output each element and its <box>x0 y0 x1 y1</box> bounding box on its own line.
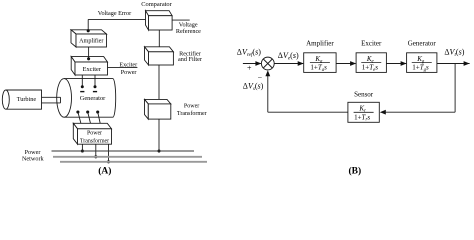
wire comparator to rectifier <box>158 30 160 49</box>
turbine cylinder <box>2 90 41 109</box>
exciter box <box>71 57 107 75</box>
power network bus line 3 <box>60 161 207 163</box>
svg-text:Transformer: Transformer <box>80 138 109 145</box>
wire tap2 to transformer <box>88 112 91 123</box>
generator cylinder <box>57 79 116 118</box>
wire junction to amplifier <box>274 63 303 65</box>
svg-text:Amplifier: Amplifier <box>79 38 103 45</box>
wire exciter to slip-ring 1 <box>81 75 83 87</box>
svg-text:Voltage Error: Voltage Error <box>98 10 131 17</box>
svg-text:Exciter: Exciter <box>83 66 102 73</box>
input wire <box>243 63 261 65</box>
power network bus line 2 <box>53 156 202 158</box>
svg-text:1+Trs: 1+Trs <box>354 113 370 122</box>
svg-text:(B): (B) <box>348 165 361 176</box>
power transformer box (right) <box>145 99 171 119</box>
svg-text:Amplifier: Amplifier <box>306 39 334 47</box>
amplifier block <box>304 53 336 73</box>
turbine shaft <box>42 96 61 98</box>
wire exciter to slip-ring 2 <box>94 75 96 87</box>
svg-text:Transformer: Transformer <box>177 110 207 117</box>
svg-text:(A): (A) <box>98 165 111 176</box>
wire transformer leg 2 <box>95 144 97 157</box>
sensor block <box>348 102 379 122</box>
wire exciter to generator <box>386 63 406 65</box>
comparator box <box>146 11 173 30</box>
power transformer box (left) <box>73 123 111 144</box>
summing junction <box>261 57 274 70</box>
svg-text:Sensor: Sensor <box>354 90 374 98</box>
svg-text:Generator: Generator <box>408 39 437 47</box>
wire rectifier to power transformer <box>158 65 160 101</box>
svg-text:Exciter: Exciter <box>361 39 382 47</box>
svg-text:Power: Power <box>87 131 102 137</box>
svg-text:+: + <box>247 64 252 73</box>
wire tap3 to transformer <box>98 112 101 123</box>
wire comparator to voltage reference <box>172 19 190 21</box>
generator block <box>407 53 437 73</box>
svg-text:Network: Network <box>22 156 45 163</box>
feedback return wire <box>268 111 348 113</box>
feedback tap wire <box>454 64 456 113</box>
svg-text:and Filter: and Filter <box>178 56 202 63</box>
output wire <box>437 63 470 65</box>
wire transformer leg 3 <box>108 144 110 162</box>
svg-text:Power: Power <box>121 69 137 76</box>
slip-ring terminal 2 <box>94 85 97 88</box>
rectifier and filter box <box>145 47 174 65</box>
amplifier box <box>71 30 107 47</box>
svg-text:Comparator: Comparator <box>141 1 172 8</box>
svg-text:1+Tas: 1+Tas <box>310 64 327 73</box>
power network bus line 1 <box>52 150 195 152</box>
svg-text:Reference: Reference <box>176 28 201 35</box>
svg-text:Power: Power <box>184 104 199 110</box>
wire tap1 to transformer <box>78 112 81 123</box>
wire amplifier to comparator (voltage error) <box>87 29 90 32</box>
generator stator tap 1 <box>76 110 79 113</box>
wire transformer leg 1 <box>81 144 83 151</box>
wire amplifier to exciter <box>336 63 356 65</box>
svg-text:Turbine: Turbine <box>17 96 37 103</box>
wire exciter power <box>108 66 138 68</box>
wire power transformer to network bus <box>158 119 160 151</box>
svg-text:1+Tes: 1+Tes <box>362 64 379 73</box>
slip-ring terminal 1 <box>81 85 84 88</box>
generator stator tap 2 <box>86 110 89 113</box>
svg-text:1+Tgs: 1+Tgs <box>412 64 429 73</box>
svg-text:Generator: Generator <box>80 95 106 102</box>
generator stator tap 3 <box>96 110 99 113</box>
wire amplifier to exciter <box>88 47 90 59</box>
exciter block <box>356 53 386 73</box>
svg-text:Exciter: Exciter <box>119 61 137 68</box>
